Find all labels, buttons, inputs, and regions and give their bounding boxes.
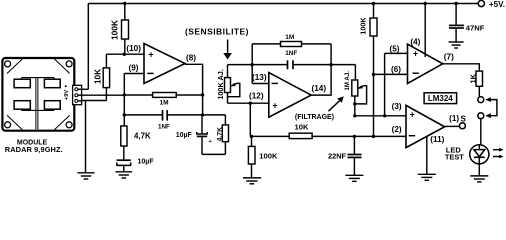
rail dot at 100K [123, 2, 126, 5]
capacitor 10uF (parallel 47K) [201, 115, 203, 134]
svg-text:100K: 100K [259, 152, 278, 161]
patch antenna feed lines [22, 77, 55, 79]
resistor 100K (bias upper-left) [124, 4, 126, 21]
wire op4 pin 11 to ground [426, 137, 428, 174]
wire pot2 to (3)/(5) [355, 115, 406, 117]
svg-text:1M: 1M [160, 100, 169, 107]
wire feedback rail 1M [124, 94, 202, 96]
wire module pin2 to (9) node [82, 94, 125, 96]
patch antenna bottom-right [44, 101, 60, 110]
svg-text:1NF: 1NF [285, 50, 297, 57]
module corner diagonal bottom-left [7, 115, 23, 130]
resistor 1K [476, 71, 483, 86]
svg-text:1K: 1K [469, 73, 478, 83]
svg-text:(1): (1) [449, 114, 459, 123]
node (10) dot [123, 53, 126, 56]
svg-text:10K: 10K [94, 69, 103, 84]
svg-text:(7): (7) [444, 52, 454, 61]
wire bottom loop [202, 153, 225, 155]
svg-text:100K AJ.: 100K AJ. [216, 69, 225, 100]
svg-text:(SENSIBILITE): (SENSIBILITE) [185, 27, 249, 37]
op-amp U1D (pins 3,2,1) [406, 105, 445, 147]
svg-text:+: + [209, 139, 212, 145]
svg-text:22NF: 22NF [328, 152, 347, 161]
switch S lever arrows [485, 97, 497, 118]
node dots on left vertical [123, 93, 126, 96]
wire switch to LED [480, 119, 482, 145]
+5V terminal [478, 0, 484, 6]
resistor 100K (threshold pullup) [373, 4, 375, 19]
wire bottom threshold node [252, 135, 407, 137]
wire +5V rail [88, 3, 478, 5]
resistor 4,7K (gain set, to 10uF ground) [121, 126, 127, 146]
wire U1B output [311, 44, 331, 95]
svg-text:(10): (10) [126, 44, 141, 53]
svg-text:+: + [410, 110, 415, 120]
capacitor 10uF (to ground) [123, 146, 125, 160]
wire left node vertical [123, 74, 125, 127]
ground (22NF) [345, 175, 363, 181]
wire (9) input [124, 73, 144, 75]
module corner hole top-left [5, 61, 11, 67]
op-amp U1A (pins 10,9,8) [144, 44, 185, 84]
svg-text:TEST: TEST [445, 153, 464, 162]
svg-text:(11): (11) [430, 135, 444, 144]
LED emission arrows [493, 148, 504, 159]
wire U1C output to 1K [443, 64, 480, 71]
svg-text:10µF: 10µF [138, 159, 155, 166]
patch antenna bottom-left [14, 101, 30, 110]
resistor 10K (bottom) [289, 133, 312, 138]
wire (13) vertical [251, 44, 253, 84]
svg-text:1M AJ.: 1M AJ. [344, 71, 351, 91]
svg-text:10K: 10K [295, 123, 309, 132]
capacitor 47NF [455, 4, 457, 26]
svg-text:+: + [148, 49, 153, 59]
svg-text:(3): (3) [392, 102, 402, 111]
potentiometer 100K AJ [227, 65, 229, 78]
module 3-pin connector [73, 85, 82, 104]
svg-text:+: + [272, 100, 277, 110]
svg-text:100K: 100K [110, 20, 120, 40]
module radar body [2, 58, 74, 131]
wire node (10) [106, 53, 144, 55]
wire pot top to (13) node [228, 64, 253, 66]
wire +9V drop to module pin 1 [87, 4, 89, 90]
resistor 1M (U1B feedback) [281, 42, 302, 47]
svg-text:(2): (2) [392, 125, 402, 134]
wire (5)/(3) tie vertical [384, 53, 386, 115]
svg-text:+5V.: +5V. [489, 0, 505, 9]
module corner diagonal top-right [54, 59, 69, 74]
capacitor 1NF (U1A feedback) [163, 110, 168, 121]
svg-text:(FILTRAGE): (FILTRAGE) [295, 114, 334, 121]
wire feedback rail 1NF [124, 114, 162, 116]
patch antenna top-right [44, 79, 60, 88]
wire LED to ground [478, 164, 480, 176]
module corner hole bottom-left [5, 122, 11, 128]
svg-text:(12): (12) [249, 91, 264, 100]
svg-text:(8): (8) [186, 53, 196, 62]
svg-text:(5): (5) [390, 44, 400, 53]
module corner diagonal bottom-right [54, 115, 69, 130]
wire ground drop [85, 101, 87, 173]
ground (LED) [470, 176, 488, 182]
svg-text:RADAR 9,9GHZ.: RADAR 9,9GHZ. [5, 145, 63, 154]
svg-text:10µF: 10µF [176, 132, 193, 139]
wire drop to bottom node [249, 103, 251, 136]
module corner hole top-right [66, 61, 72, 67]
resistor 100K (to ground) [251, 136, 253, 146]
svg-text:LM324: LM324 [428, 94, 453, 103]
wire op3 power pin 4 [424, 4, 426, 57]
resistor 4,7K (second, parallel with 10uF coupling) [224, 115, 226, 125]
capacitor 22NF [353, 136, 355, 154]
wire (6) input [374, 73, 408, 75]
potentiometer 1M AJ [354, 65, 356, 80]
wire feedback rail 1M (U1B) [252, 43, 331, 45]
svg-text:47NF: 47NF [466, 23, 485, 32]
svg-text:4,7K: 4,7K [134, 131, 151, 140]
ground (pin 11) [418, 174, 436, 180]
capacitor 1NF (U1B feedback) [288, 60, 294, 69]
ground (module) [78, 173, 95, 179]
IC label LM324 [424, 93, 457, 104]
svg-text:(13): (13) [252, 73, 267, 82]
module corner hole bottom-right [66, 122, 72, 128]
svg-text:+: + [413, 49, 418, 59]
LED test diode [470, 145, 489, 164]
op-amp U1C (pins 5,6,7) [408, 44, 443, 83]
svg-text:100K: 100K [358, 17, 367, 35]
arrow filtrage [329, 100, 341, 111]
resistor 10K (left) [105, 88, 107, 101]
svg-text:4,7K: 4,7K [216, 127, 223, 141]
svg-text:+9V: +9V [64, 90, 70, 100]
module corner diagonal top-left [7, 59, 23, 74]
svg-text:1M: 1M [285, 34, 294, 41]
wire module pin 3 to 10K and ground [82, 100, 107, 102]
svg-text:S: S [461, 114, 467, 123]
svg-text:1NF: 1NF [158, 124, 170, 131]
ground (10uF) [115, 172, 132, 178]
ground (47NF) [449, 42, 464, 48]
resistor 1M (U1A feedback) [153, 93, 177, 98]
ground (100K) [243, 178, 261, 184]
svg-text:(9): (9) [129, 64, 139, 73]
wire 1NF line (U1B) [252, 64, 287, 66]
wire U1D output to terminal S [445, 125, 460, 127]
arrow sensibilite [227, 40, 229, 54]
wire pot bottom to (12) [228, 102, 269, 104]
patch antenna top-left [14, 79, 30, 88]
svg-text:(14): (14) [312, 84, 327, 93]
output terminal (1) S [459, 123, 465, 129]
switch S contact top [478, 97, 484, 103]
svg-text:(4): (4) [410, 38, 420, 47]
svg-text:(6): (6) [391, 65, 401, 74]
switch S contact bottom [478, 113, 484, 119]
wire U1A output [185, 64, 203, 115]
op-amp U1B (pins 13,12,14) [269, 73, 311, 118]
